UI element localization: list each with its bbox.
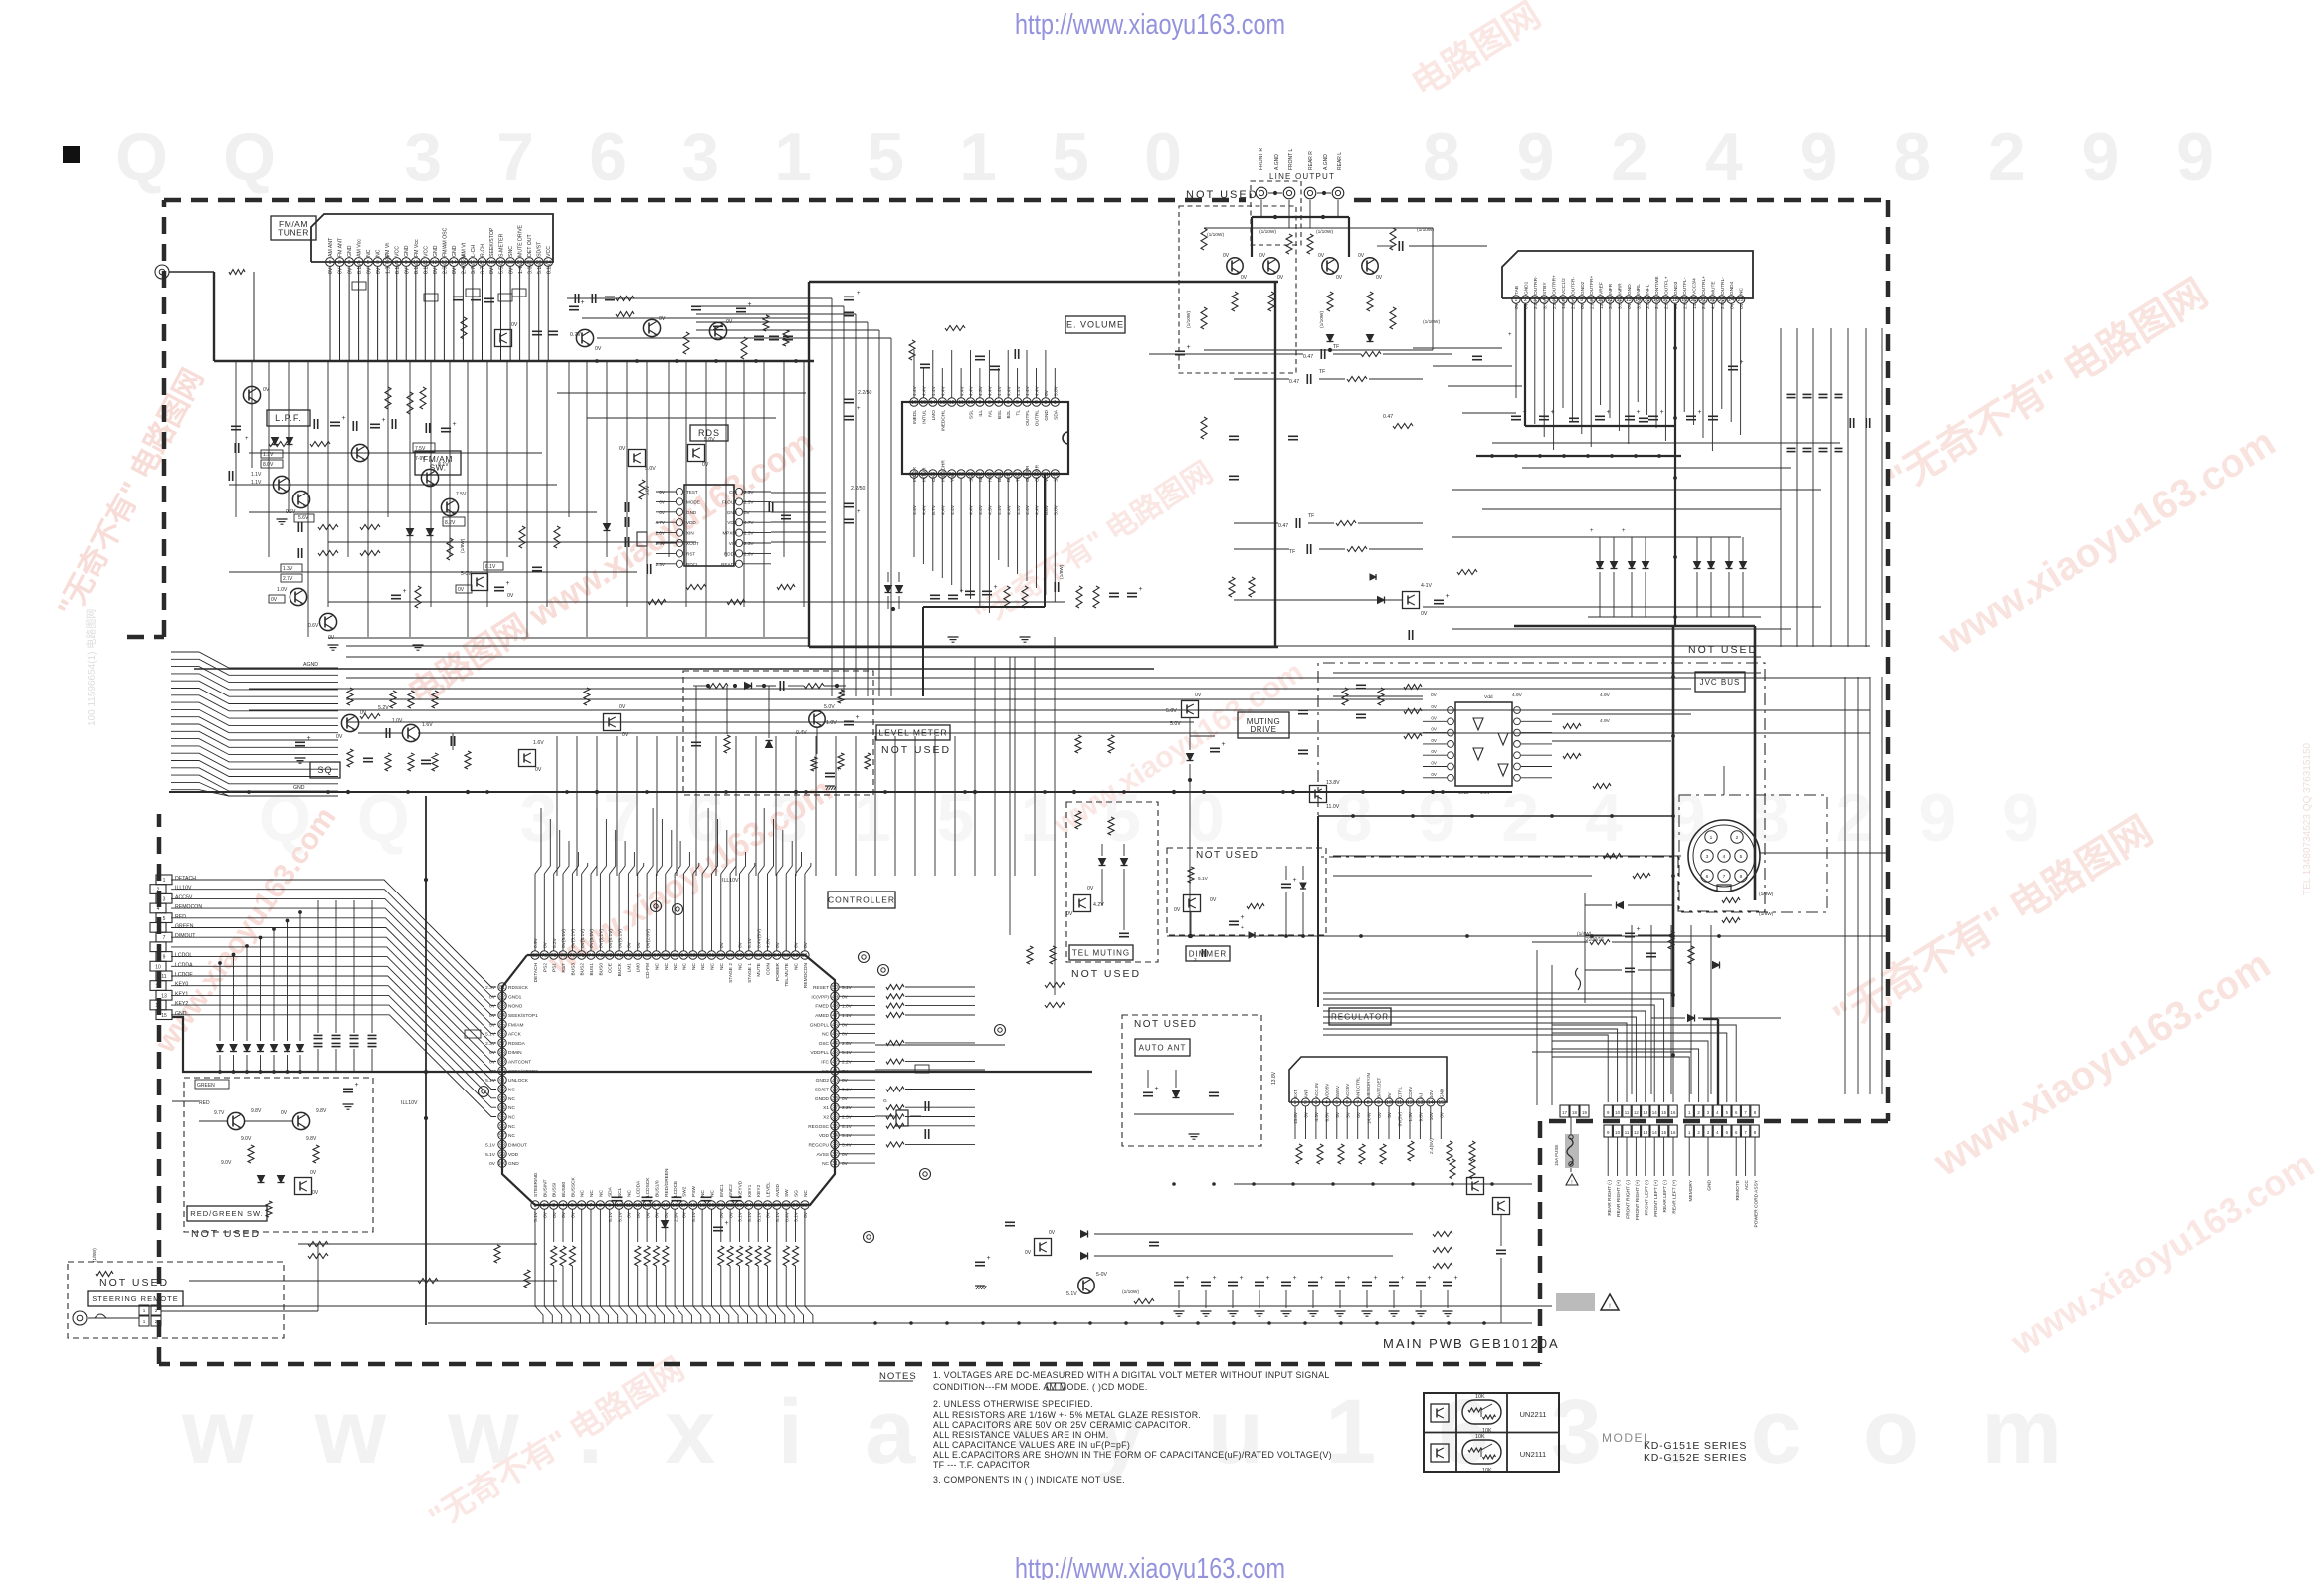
svg-text:TR: TR xyxy=(1016,475,1022,482)
svg-text:0V: 0V xyxy=(803,941,809,948)
svg-text:ACC: ACC xyxy=(1744,1179,1750,1190)
svg-text:2.3V: 2.3V xyxy=(656,541,666,546)
svg-text:5.0V: 5.0V xyxy=(645,466,656,472)
svg-text:1: 1 xyxy=(143,1319,146,1324)
svg-text:0V: 0V xyxy=(543,1211,549,1218)
svg-text:0V: 0V xyxy=(1431,715,1438,720)
svg-text:1.3V: 1.3V xyxy=(1408,1111,1413,1121)
svg-text:NC: NC xyxy=(508,1133,515,1139)
svg-text:14: 14 xyxy=(1428,1100,1434,1106)
svg-text:74: 74 xyxy=(588,953,594,959)
svg-text:0V: 0V xyxy=(803,1211,809,1218)
svg-text:1: 1 xyxy=(143,1308,146,1313)
svg-text:+: + xyxy=(837,766,841,773)
svg-text:RST: RST xyxy=(686,551,695,556)
svg-text:3.0V: 3.0V xyxy=(1636,298,1642,309)
svg-text:2.3V: 2.3V xyxy=(744,490,754,495)
svg-text:+: + xyxy=(581,299,585,306)
svg-text:0V: 0V xyxy=(595,346,602,352)
svg-text:14: 14 xyxy=(155,1003,161,1009)
svg-text:5.1V: 5.1V xyxy=(485,1152,496,1158)
svg-text:4.3V: 4.3V xyxy=(978,385,984,396)
svg-text:+: + xyxy=(1266,1275,1270,1282)
svg-text:OUTFL: OUTFL xyxy=(1025,410,1031,426)
svg-text:13: 13 xyxy=(1626,297,1632,303)
svg-text:0V: 0V xyxy=(1431,772,1438,777)
svg-text:1: 1 xyxy=(1710,835,1713,841)
svg-text:8.1V: 8.1V xyxy=(424,263,430,274)
svg-text:AGND: AGND xyxy=(303,662,318,668)
svg-text:ALL RESISTORS ARE 1/16W +- 5%: ALL RESISTORS ARE 1/16W +- 5% METAL GLAZ… xyxy=(933,1410,1201,1420)
svg-text:UNLOCK: UNLOCK xyxy=(508,1078,529,1084)
svg-text:0V: 0V xyxy=(744,510,751,515)
svg-text:SW.: SW. xyxy=(429,463,446,473)
svg-text:NC: NC xyxy=(794,962,800,969)
svg-text:14.4V: 14.4V xyxy=(1366,1111,1371,1124)
svg-text:NOT USED: NOT USED xyxy=(1071,968,1141,980)
svg-text:2.2V: 2.2V xyxy=(842,1060,853,1066)
svg-text:5.1V: 5.1V xyxy=(842,1088,853,1093)
svg-text:0V: 0V xyxy=(842,994,849,1000)
svg-text:READY: READY xyxy=(721,562,737,567)
svg-text:(1/10W): (1/10W) xyxy=(1316,229,1333,235)
svg-text:DIMIN: DIMIN xyxy=(508,1050,522,1056)
svg-text:1.0V: 1.0V xyxy=(826,720,837,726)
svg-text:10: 10 xyxy=(155,964,161,970)
svg-text:KEY1: KEY1 xyxy=(747,1184,753,1197)
svg-text:+: + xyxy=(1241,925,1244,931)
svg-text:VCC3/4: VCC3/4 xyxy=(1692,278,1698,295)
svg-text:7: 7 xyxy=(997,400,1000,406)
svg-text:RDCL: RDCL xyxy=(686,562,699,567)
svg-text:12: 12 xyxy=(432,260,438,266)
svg-text:VDD: VDD xyxy=(508,1152,519,1158)
svg-text:(1/10W): (1/10W) xyxy=(1122,1289,1139,1295)
svg-text:13.8V: 13.8V xyxy=(1293,1111,1298,1124)
svg-text:FMED: FMED xyxy=(815,1004,829,1010)
svg-text:5: 5 xyxy=(367,260,370,266)
svg-text:(1/8W): (1/8W) xyxy=(92,1248,97,1262)
svg-text:6: 6 xyxy=(1346,1100,1349,1106)
svg-text:5.1V: 5.1V xyxy=(617,1211,623,1222)
svg-text:0V: 0V xyxy=(1729,302,1735,309)
svg-text:78: 78 xyxy=(551,953,557,959)
svg-text:+: + xyxy=(1240,1275,1244,1282)
svg-text:FRONT RIGHT (-): FRONT RIGHT (-) xyxy=(1626,1180,1632,1219)
svg-text:4.4V: 4.4V xyxy=(912,504,918,515)
svg-text:AVDD: AVDD xyxy=(775,1183,781,1197)
svg-text:SW: SW xyxy=(784,1189,790,1197)
svg-text:8: 8 xyxy=(1580,297,1583,303)
svg-text:0V(5.1V): 0V(5.1V) xyxy=(599,929,605,948)
svg-text:BUSSCK: BUSSCK xyxy=(570,1176,576,1197)
svg-text:8: 8 xyxy=(1367,1100,1370,1106)
svg-text:NOT USED: NOT USED xyxy=(1186,189,1259,201)
svg-text:0V: 0V xyxy=(376,267,382,274)
svg-text:5V: 5V xyxy=(1346,1111,1351,1118)
svg-text:10V: 10V xyxy=(1429,1090,1434,1098)
svg-text:48: 48 xyxy=(832,1004,838,1010)
svg-text:(1/8W): (1/8W) xyxy=(1759,911,1774,917)
svg-text:84: 84 xyxy=(499,1013,505,1019)
svg-text:0V: 0V xyxy=(1025,1250,1032,1256)
svg-text:ANT: ANT xyxy=(1304,1090,1309,1098)
svg-text:59: 59 xyxy=(727,953,733,959)
svg-text:STAGE 2: STAGE 2 xyxy=(728,963,734,983)
svg-text:13: 13 xyxy=(644,1203,650,1209)
svg-text:8.1V: 8.1V xyxy=(414,263,420,274)
svg-text:(1/10W): (1/10W) xyxy=(1319,311,1325,328)
svg-text:+: + xyxy=(856,714,860,721)
svg-text:0V: 0V xyxy=(511,322,518,328)
svg-text:NC: NC xyxy=(738,962,744,969)
svg-text:0V: 0V xyxy=(1377,1111,1382,1118)
svg-text:LM1: LM1 xyxy=(626,963,632,973)
svg-text:ILL10V: ILL10V xyxy=(722,878,739,884)
svg-text:SEEK/STOP: SEEK/STOP xyxy=(489,227,495,257)
svg-text:2: 2 xyxy=(155,1308,158,1313)
svg-text:79: 79 xyxy=(541,953,547,959)
svg-text:TL: TL xyxy=(1016,410,1022,416)
svg-text:KD-G151E SERIES: KD-G151E SERIES xyxy=(1644,1440,1747,1452)
svg-text:32: 32 xyxy=(832,1152,838,1158)
svg-text:5.1V: 5.1V xyxy=(775,1211,781,1222)
svg-text:71: 71 xyxy=(616,953,622,959)
svg-text:5.1V: 5.1V xyxy=(608,1211,614,1222)
svg-text:VCC: VCC xyxy=(546,246,552,257)
svg-text:9: 9 xyxy=(608,1203,611,1209)
svg-text:0V: 0V xyxy=(366,267,372,274)
svg-text:LCDCE: LCDCE xyxy=(673,1181,678,1197)
svg-text:MPXIN: MPXIN xyxy=(722,531,737,536)
svg-text:0V: 0V xyxy=(1431,738,1438,743)
svg-text:+: + xyxy=(382,417,386,424)
svg-text:44: 44 xyxy=(832,1041,838,1047)
svg-text:2.3V: 2.3V xyxy=(744,531,754,536)
svg-text:47: 47 xyxy=(832,1013,838,1019)
svg-text:0V: 0V xyxy=(659,316,666,322)
svg-text:NC: NC xyxy=(508,1124,515,1130)
svg-text:0V: 0V xyxy=(1087,886,1094,892)
svg-text:5.1V: 5.1V xyxy=(747,1211,753,1222)
svg-text:+: + xyxy=(1241,914,1245,921)
svg-text:4: 4 xyxy=(157,906,160,912)
svg-text:GND4: GND4 xyxy=(1729,281,1735,295)
svg-text:0V: 0V xyxy=(1356,1111,1361,1118)
svg-text:5.1V: 5.1V xyxy=(756,1211,762,1222)
svg-text:+: + xyxy=(307,735,311,742)
svg-text:NOTES: NOTES xyxy=(879,1371,917,1382)
svg-text:3: 3 xyxy=(1035,400,1038,406)
svg-text:31: 31 xyxy=(832,1161,838,1167)
svg-text:1.3V: 1.3V xyxy=(283,566,293,572)
svg-text:0V: 0V xyxy=(636,941,642,948)
svg-text:10: 10 xyxy=(1615,1110,1620,1115)
svg-text:+: + xyxy=(1660,409,1664,416)
svg-text:FRONT LEFT (+): FRONT LEFT (+) xyxy=(1653,1180,1659,1217)
svg-text:0V: 0V xyxy=(1066,911,1073,917)
svg-text:0V: 0V xyxy=(659,490,666,495)
svg-text:4.2V: 4.2V xyxy=(1093,902,1104,908)
svg-text:NC: NC xyxy=(508,1096,515,1102)
svg-text:+: + xyxy=(1637,409,1641,416)
svg-text:89: 89 xyxy=(499,1060,505,1066)
svg-text:0V: 0V xyxy=(507,593,514,599)
svg-text:IFC: IFC xyxy=(821,1060,829,1066)
svg-text:BSL: BSL xyxy=(997,410,1003,419)
svg-text:OUTFR-: OUTFR- xyxy=(1570,276,1576,295)
svg-text:0V: 0V xyxy=(659,499,666,504)
svg-text:5.2V: 5.2V xyxy=(552,937,558,948)
svg-text:0V(5V): 0V(5V) xyxy=(1398,1112,1403,1127)
svg-text:TF: TF xyxy=(1289,549,1295,555)
svg-text:12: 12 xyxy=(1634,1110,1639,1115)
svg-text:GND: GND xyxy=(293,785,305,791)
svg-text:0V: 0V xyxy=(645,1211,651,1218)
svg-text:3.6V: 3.6V xyxy=(527,263,533,274)
svg-text:CD-FM: CD-FM xyxy=(645,963,651,978)
svg-text:GNDD: GNDD xyxy=(815,1096,830,1102)
svg-text:ALL CAPACITORS ARE 50V OR 25V: ALL CAPACITORS ARE 50V OR 25V CERAMIC CA… xyxy=(933,1420,1191,1430)
svg-text:77: 77 xyxy=(560,953,566,959)
svg-text:MODE: MODE xyxy=(686,499,700,504)
svg-text:TF: TF xyxy=(1319,369,1325,375)
svg-text:0V: 0V xyxy=(571,1211,577,1218)
svg-text:RESET: RESET xyxy=(813,985,829,991)
svg-text:POWER CORD ASSY: POWER CORD ASSY xyxy=(1754,1179,1760,1227)
svg-text:SW5V: SW5V xyxy=(1335,1085,1340,1098)
svg-text:4.4V: 4.4V xyxy=(1006,504,1012,515)
svg-text:0V: 0V xyxy=(842,1161,849,1167)
svg-text:STBY: STBY xyxy=(1542,282,1548,295)
svg-text:3.0V: 3.0V xyxy=(1618,298,1624,309)
svg-text:(1/10W): (1/10W) xyxy=(1186,311,1192,328)
svg-text:11.0V: 11.0V xyxy=(1326,804,1340,810)
svg-text:BUS3: BUS3 xyxy=(570,963,576,976)
svg-text:VCC1/2: VCC1/2 xyxy=(1561,278,1567,295)
svg-text:13: 13 xyxy=(1643,1110,1647,1115)
svg-text:RDSSCK: RDSSCK xyxy=(508,985,529,991)
svg-text:8.7V: 8.7V xyxy=(931,504,937,515)
svg-text:CONTROLLER: CONTROLLER xyxy=(828,895,895,905)
svg-text:0.4V: 0.4V xyxy=(784,1211,790,1222)
svg-text:GREEN: GREEN xyxy=(175,924,194,930)
svg-text:JVC BUS: JVC BUS xyxy=(1700,678,1741,687)
svg-text:2.0V: 2.0V xyxy=(656,531,666,536)
svg-text:MEMORY: MEMORY xyxy=(1688,1179,1694,1201)
svg-text:0V: 0V xyxy=(452,267,458,274)
svg-text:9.0V: 9.0V xyxy=(241,1136,252,1142)
svg-text:15: 15 xyxy=(1661,1130,1666,1135)
svg-text:FRONT LEFT (-): FRONT LEFT (-) xyxy=(1644,1180,1649,1216)
svg-text:STAGE 1: STAGE 1 xyxy=(747,963,753,983)
svg-text:RED/GREEN: RED/GREEN xyxy=(664,1168,670,1197)
svg-text:REGCPU: REGCPU xyxy=(808,1142,829,1148)
svg-text:+: + xyxy=(1607,409,1611,416)
svg-text:0.47: 0.47 xyxy=(1383,414,1393,420)
svg-text:TEL.MUTE: TEL.MUTE xyxy=(784,963,790,987)
svg-text:REMOTE: REMOTE xyxy=(1735,1180,1741,1201)
svg-text:0.4V: 0.4V xyxy=(796,730,807,736)
svg-text:UN2211: UN2211 xyxy=(1520,1410,1547,1419)
svg-text:1.1V: 1.1V xyxy=(842,1013,853,1019)
svg-text:DETACH: DETACH xyxy=(175,876,196,882)
svg-text:CCE: CCE xyxy=(608,963,614,973)
svg-text:RST: RST xyxy=(561,963,567,973)
svg-text:NC: NC xyxy=(598,1190,604,1197)
svg-text:0V: 0V xyxy=(312,1190,319,1196)
svg-text:4.7V: 4.7V xyxy=(656,520,666,525)
svg-text:15: 15 xyxy=(1438,1100,1444,1106)
svg-text:0V: 0V xyxy=(489,267,495,274)
svg-text:0V: 0V xyxy=(328,267,334,274)
svg-text:2.8V: 2.8V xyxy=(1701,298,1707,309)
svg-text:R-CH: R-CH xyxy=(481,244,486,257)
svg-text:+: + xyxy=(1428,1275,1432,1282)
svg-text:REAR L: REAR L xyxy=(1337,152,1343,170)
svg-text:40: 40 xyxy=(832,1078,838,1084)
svg-text:22: 22 xyxy=(958,472,964,478)
svg-text:OUTFR: OUTFR xyxy=(1025,465,1031,482)
svg-text:NC: NC xyxy=(580,1190,586,1197)
svg-text:34: 34 xyxy=(832,1133,838,1139)
svg-text:0.9V: 0.9V xyxy=(533,937,539,948)
svg-text:NC: NC xyxy=(710,1190,716,1197)
svg-text:22: 22 xyxy=(727,1203,733,1209)
svg-text:NC: NC xyxy=(710,962,716,969)
svg-text:5-0V: 5-0V xyxy=(1096,1272,1107,1278)
svg-text:VDDPLL: VDDPLL xyxy=(810,1050,829,1056)
svg-text:RED: RED xyxy=(175,914,186,920)
svg-text:MAIN PWB GEB10120A: MAIN PWB GEB10120A xyxy=(1383,1336,1560,1351)
svg-text:50: 50 xyxy=(832,985,838,991)
svg-text:INEDL: INEDL xyxy=(912,410,918,424)
svg-text:SD/ST: SD/ST xyxy=(537,241,543,257)
svg-text:NC: NC xyxy=(508,1115,515,1121)
svg-text:0V(5.1V): 0V(5.1V) xyxy=(608,929,614,948)
svg-text:DET OUT: DET OUT xyxy=(527,233,533,257)
svg-text:LCDDA: LCDDA xyxy=(636,1180,642,1197)
svg-text:BATT.DET: BATT.DET xyxy=(1377,1077,1382,1098)
svg-text:0V: 0V xyxy=(627,941,633,948)
svg-text:GND: GND xyxy=(1439,1088,1444,1098)
svg-text:CONDITION---FM MODE. AM: CONDITION---FM MODE. AM MODE. ( )CD MODE… xyxy=(933,1382,1148,1392)
svg-text:3: 3 xyxy=(1194,957,1197,962)
svg-text:54: 54 xyxy=(774,953,780,959)
svg-text:+: + xyxy=(857,406,861,412)
svg-text:4.7V: 4.7V xyxy=(744,520,754,525)
svg-text:0V: 0V xyxy=(1318,253,1325,259)
svg-text:2.3V: 2.3V xyxy=(744,541,754,546)
svg-text:5: 5 xyxy=(571,1203,574,1209)
svg-text:REAR LEFT (+): REAR LEFT (+) xyxy=(1672,1180,1678,1214)
svg-text:LCDSCK: LCDSCK xyxy=(645,1177,651,1197)
svg-text:0V: 0V xyxy=(719,1211,725,1218)
svg-text:4.9V: 4.9V xyxy=(1600,718,1611,724)
svg-text:GND3: GND3 xyxy=(1673,281,1679,295)
svg-text:2.9V: 2.9V xyxy=(673,1211,678,1222)
svg-text:9.8V: 9.8V xyxy=(316,1108,327,1114)
svg-text:10: 10 xyxy=(616,1203,622,1209)
svg-text:9.8V: 9.8V xyxy=(306,1136,317,1142)
svg-text:Vref: Vref xyxy=(950,473,956,482)
svg-text:2.2V: 2.2V xyxy=(842,1105,853,1111)
svg-text:SQ: SQ xyxy=(317,765,332,775)
svg-text:GND: GND xyxy=(1707,1179,1713,1190)
svg-text:60: 60 xyxy=(718,953,724,959)
svg-text:2.3V: 2.3V xyxy=(656,562,666,567)
svg-text:58: 58 xyxy=(737,953,743,959)
svg-text:+: + xyxy=(1551,409,1555,416)
svg-text:5.1V: 5.1V xyxy=(842,1050,853,1056)
svg-text:4.8V: 4.8V xyxy=(766,937,772,948)
svg-text:66: 66 xyxy=(663,953,669,959)
svg-text:1.6V: 1.6V xyxy=(422,722,433,728)
svg-text:+: + xyxy=(1508,332,1512,338)
svg-text:18: 18 xyxy=(1572,1110,1577,1115)
svg-text:REAR RIGHT (-): REAR RIGHT (-) xyxy=(1607,1180,1613,1216)
svg-text:OUTRR-: OUTRR- xyxy=(1533,276,1539,295)
svg-text:B2L: B2L xyxy=(1006,410,1012,419)
svg-text:9: 9 xyxy=(163,955,166,961)
svg-text:8: 8 xyxy=(1740,874,1743,880)
svg-text:1: 1 xyxy=(534,1203,537,1209)
svg-text:SCL: SCL xyxy=(1053,472,1059,482)
svg-text:+: + xyxy=(1740,359,1744,366)
svg-text:0V: 0V xyxy=(794,941,800,948)
svg-text:2.4-5.3V: 2.4-5.3V xyxy=(462,254,468,274)
svg-text:76: 76 xyxy=(570,953,576,959)
svg-text:6: 6 xyxy=(1706,874,1709,880)
svg-text:13: 13 xyxy=(1418,1100,1424,1106)
svg-text:2.2/50: 2.2/50 xyxy=(851,486,866,492)
svg-text:+: + xyxy=(1187,344,1191,351)
svg-text:0V: 0V xyxy=(1241,275,1248,281)
svg-text:52: 52 xyxy=(793,953,799,959)
svg-text:KEY0: KEY0 xyxy=(175,982,188,988)
svg-text:+: + xyxy=(1320,1275,1324,1282)
svg-text:INFL: INFL xyxy=(1646,284,1651,295)
svg-text:2: 2 xyxy=(1304,1100,1307,1106)
svg-text:37: 37 xyxy=(832,1105,838,1111)
svg-text:10V: 10V xyxy=(1429,1111,1434,1120)
svg-text:0.4V(5V): 0.4V(5V) xyxy=(756,929,762,948)
svg-text:+: + xyxy=(857,509,861,515)
svg-text:0V: 0V xyxy=(1431,727,1438,732)
svg-text:5: 5 xyxy=(1740,854,1743,860)
svg-text:24: 24 xyxy=(1728,297,1734,303)
svg-text:NC: NC xyxy=(626,1190,632,1197)
svg-text:5.1V: 5.1V xyxy=(533,1211,539,1222)
svg-text:NC: NC xyxy=(700,962,706,969)
svg-text:8: 8 xyxy=(157,945,160,951)
svg-text:0V: 0V xyxy=(1174,907,1181,913)
svg-text:4.4V: 4.4V xyxy=(922,504,928,515)
svg-text:0V: 0V xyxy=(1304,1111,1309,1118)
svg-text:14: 14 xyxy=(451,260,457,266)
svg-text:10: 10 xyxy=(1615,1130,1620,1135)
svg-text:NC: NC xyxy=(803,1190,809,1197)
svg-text:STEERING: STEERING xyxy=(533,1172,539,1197)
svg-text:NC: NC xyxy=(719,962,725,969)
svg-text:INEDCHR: INEDCHR xyxy=(940,460,946,482)
svg-text:2: 2 xyxy=(1736,835,1739,841)
svg-text:ANTCONT: ANTCONT xyxy=(508,1060,531,1066)
svg-text:18: 18 xyxy=(690,1203,696,1209)
svg-text:BSR: BSR xyxy=(997,472,1003,482)
svg-text:+: + xyxy=(1293,877,1297,884)
svg-text:5.0V: 5.0V xyxy=(704,437,715,443)
